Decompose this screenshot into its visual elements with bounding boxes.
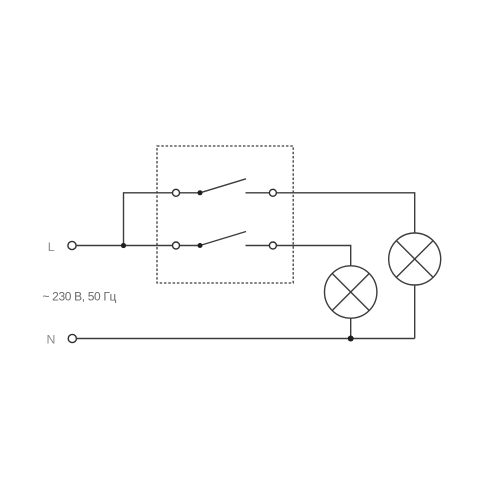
svg-text:N: N [47,332,56,346]
svg-text:~ 230 В, 50 Гц: ~ 230 В, 50 Гц [43,289,117,303]
svg-text:L: L [48,240,55,254]
